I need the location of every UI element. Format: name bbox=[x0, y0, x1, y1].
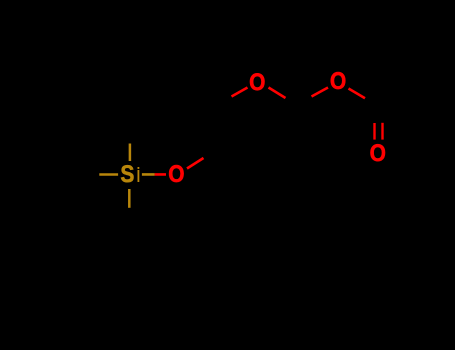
wire bond Si-O4 (red half) bbox=[155, 173, 166, 176]
silicon Si bbox=[121, 165, 139, 182]
wire bond O2-C2 ester left (red half) bbox=[312, 88, 329, 97]
wire bond Si-CH3 left (Si-colored half) bbox=[99, 173, 118, 176]
wire double bond C=O3 carbonyl (red halves) bbox=[375, 123, 383, 140]
wire bond Si-O4 (Si-colored half) bbox=[142, 173, 155, 176]
oxygen O3 (carbonyl O) bbox=[371, 144, 386, 161]
wire bond O1-CH2 ring left (red half) bbox=[232, 88, 248, 97]
wire bond O1-C2 acetal right (red half) bbox=[269, 88, 286, 99]
wire bond O2-carbonyl C (red half) bbox=[349, 89, 366, 99]
wire bond Si-CH3 down (Si-colored half) bbox=[128, 189, 131, 208]
oxygen O2 (ester O) bbox=[331, 72, 346, 89]
wire bond O4-C5 carbinol (red half) bbox=[187, 158, 204, 169]
oxygen O1 (acetal O) bbox=[250, 73, 265, 90]
oxygen O4 (silyl ether O) bbox=[169, 165, 184, 182]
wire bond Si-CH3 up (Si-colored half) bbox=[129, 144, 132, 162]
